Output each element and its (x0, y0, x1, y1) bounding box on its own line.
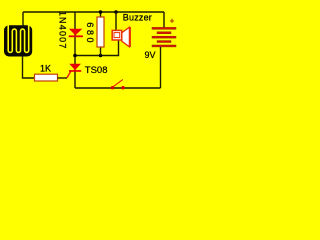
wire sensor bottom lead (23, 57, 35, 79)
wire battery positive lead (163, 12, 165, 28)
wire 1K to gate (58, 77, 68, 79)
node 680 junction (99, 54, 103, 58)
sensor element (touch plate) (4, 25, 32, 57)
svg-text:1K: 1K (40, 64, 51, 74)
wire diode branch vertical (74, 12, 76, 88)
wire mid rail (75, 40, 119, 56)
wire top rail (23, 11, 164, 13)
wire battery negative lead (160, 47, 162, 88)
thyristor Q1 TS08 gate lead (67, 71, 71, 78)
svg-text:1N4007: 1N4007 (58, 11, 68, 50)
svg-text:Buzzer: Buzzer (123, 12, 152, 22)
wire sensor top lead (22, 12, 24, 26)
svg-text:+: + (170, 15, 175, 25)
switch S1 (111, 80, 125, 90)
svg-text:TS08: TS08 (85, 65, 108, 76)
wire 680 bottom lead (100, 47, 102, 56)
buzzer LS1 (112, 27, 130, 47)
node 680 top junction (99, 10, 103, 14)
node buzzer top junction (114, 10, 118, 14)
wire buzzer top lead (115, 12, 117, 31)
wire bottom rail (75, 87, 161, 89)
svg-text:680: 680 (85, 22, 95, 45)
svg-text:9V: 9V (145, 50, 156, 60)
node diode/SCR junction (73, 54, 77, 58)
resistor R2 680 (97, 17, 104, 47)
background (0, 0, 180, 100)
diode D1 1N4007 (69, 29, 83, 38)
resistor R1 1K (35, 74, 58, 81)
battery BT1 9V (152, 27, 176, 47)
thyristor Q1 TS08 (69, 64, 81, 72)
wire 680 top lead (100, 12, 102, 17)
